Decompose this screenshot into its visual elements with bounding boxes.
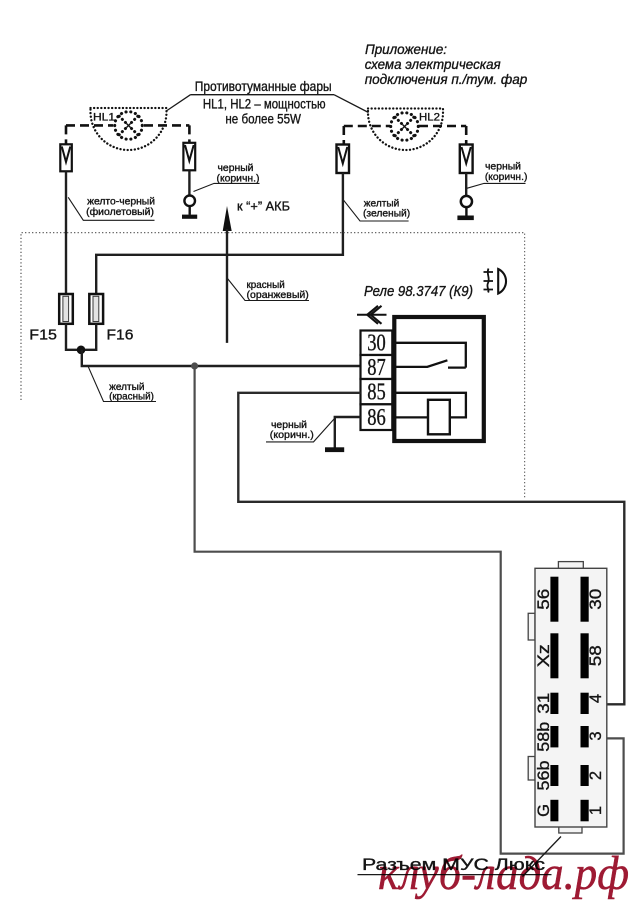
pin 58 (bar + label) xyxy=(581,633,605,678)
svg-text:(оранжевый): (оранжевый) xyxy=(247,290,309,301)
svg-text:87: 87 xyxy=(367,355,386,381)
pin Xz (bar + label) xyxy=(535,633,559,678)
wire: X4 to ground ring xyxy=(465,173,467,196)
connector MUS Lux: top tab xyxy=(558,562,583,569)
connector X4 (to HL2, right / ground side) xyxy=(460,145,473,174)
svg-text:к “+” АКБ: к “+” АКБ xyxy=(237,200,290,214)
svg-text:G: G xyxy=(535,804,553,817)
fog lamp HL2 (dotted dome + bulb) xyxy=(368,109,443,151)
label: Противотуманные фары (with underline and leaders to HL1, HL2) xyxy=(167,78,369,127)
svg-text:желто-черный: желто-черный xyxy=(87,197,155,208)
label: черный (коричн.) at X2 xyxy=(194,163,260,192)
pin 58b (bar + label) xyxy=(535,722,559,752)
note: Приложение header text xyxy=(365,41,528,87)
connector X3 (to HL2, left) xyxy=(337,145,350,174)
svg-text:2: 2 xyxy=(587,771,605,780)
pin 31 (bar + label) xyxy=(535,693,559,714)
ground terminal ring at X4 xyxy=(461,196,472,207)
svg-text:HL1, HL2 – мощностью: HL1, HL2 – мощностью xyxy=(203,96,326,112)
svg-text:схема электрическая: схема электрическая xyxy=(365,56,501,72)
svg-text:Xz: Xz xyxy=(535,644,553,667)
svg-text:4: 4 xyxy=(587,694,605,703)
wire: relay pin 86 to chassis ground xyxy=(335,417,361,448)
pin 2 (bar + label) xyxy=(581,765,605,786)
wire: X1 down to fuse F15 xyxy=(65,171,67,294)
svg-text:Реле 98.3747 (К9): Реле 98.3747 (К9) xyxy=(364,284,473,300)
svg-text:клуб-лада.рф: клуб-лада.рф xyxy=(378,847,629,900)
relay pin box 30 xyxy=(361,331,393,357)
pin 4 (bar + label) xyxy=(581,693,605,714)
ground terminal ring at X2 xyxy=(184,196,195,207)
wire: X2 to ground ring xyxy=(188,170,190,195)
svg-text:F16: F16 xyxy=(107,327,134,344)
arrow: line-continuation chevrons left of relay xyxy=(357,306,387,324)
svg-text:Приложение:: Приложение: xyxy=(365,41,447,57)
label: черный (коричн.) at relay ground xyxy=(266,419,335,442)
relay internal: pin87 movable contact arm xyxy=(392,360,447,367)
fog lamp HL1 (dotted dome + bulb) xyxy=(91,108,167,150)
svg-text:31: 31 xyxy=(535,693,553,714)
connector MUS Lux: body xyxy=(535,568,607,827)
relay internal: pin30 to fixed contact xyxy=(392,343,466,368)
svg-text:(зеленый): (зеленый) xyxy=(363,209,410,220)
svg-text:30: 30 xyxy=(587,589,605,610)
pin 56 (bar + label) xyxy=(535,577,559,622)
connector X2 (to HL1, right / ground side) xyxy=(183,143,195,171)
wire: dashed lamp wires HL1 xyxy=(66,125,189,144)
pin 3 (bar + label) xyxy=(581,726,605,747)
wire: junction down then right to relay pin 87 xyxy=(82,350,361,366)
junction node below fuses xyxy=(77,346,86,355)
svg-text:58b: 58b xyxy=(535,722,553,752)
wire: relay pin 85 to MUS connector pin 4 xyxy=(238,393,624,705)
wire: battery feed arrow up (к + АКБ) xyxy=(223,206,232,343)
svg-text:56b: 56b xyxy=(535,761,553,791)
relay internal: pin86 to coil left side xyxy=(392,416,428,418)
svg-text:3: 3 xyxy=(587,731,605,740)
label: черный (коричн.) at X4 xyxy=(467,161,528,188)
relay K9 body box xyxy=(394,317,484,441)
svg-text:черный: черный xyxy=(485,161,521,172)
svg-text:56: 56 xyxy=(535,589,553,610)
svg-text:F15: F15 xyxy=(29,327,57,344)
pin 56b (bar + label) xyxy=(535,761,559,791)
svg-text:(фиолетовый): (фиолетовый) xyxy=(86,206,154,218)
svg-text:черный: черный xyxy=(271,420,307,431)
label: желтый (красный) xyxy=(88,367,156,403)
fuse F16 xyxy=(89,294,103,324)
relay pin box 85 xyxy=(361,379,393,406)
pin 1 (bar + label) xyxy=(581,800,605,822)
svg-text:(коричн.): (коричн.) xyxy=(270,430,314,441)
svg-text:HL2: HL2 xyxy=(419,112,440,124)
wire: branch from 87-net to MUS connector pin 3 xyxy=(195,366,624,854)
svg-text:58: 58 xyxy=(587,645,605,666)
svg-text:(коричн.): (коричн.) xyxy=(217,173,260,184)
ground symbol at relay xyxy=(325,447,344,452)
fuse F15 xyxy=(59,294,73,324)
svg-text:86: 86 xyxy=(367,405,386,431)
junction node on 87 wire (branch to MUS connector) xyxy=(191,362,198,369)
svg-text:подключения п./тум. фар: подключения п./тум. фар xyxy=(365,71,528,87)
relay internal: pin85 to coil right side xyxy=(392,393,466,418)
relay coil xyxy=(428,400,450,435)
relay pin box 87 xyxy=(361,355,393,381)
relay pin box 86 xyxy=(361,404,393,431)
svg-text:HL1: HL1 xyxy=(93,112,115,124)
wire: F15/F16 bottoms join xyxy=(66,324,96,350)
svg-text:(коричн.): (коричн.) xyxy=(485,172,528,183)
label: желто-черный (фиолетовый) at X1 wire xyxy=(68,197,155,221)
wire: X3 down, left, to fuse F16 top xyxy=(96,173,343,294)
connector MUS Lux: bottom tab xyxy=(559,827,582,834)
ground symbol below X2 xyxy=(182,206,197,219)
dotted boundary box (mounting block) xyxy=(21,233,525,500)
svg-text:85: 85 xyxy=(367,380,386,406)
label: Разъем МУС Люкс (with underline and leader) xyxy=(358,837,562,877)
connector MUS Lux: left side bumps xyxy=(528,613,535,640)
svg-text:1: 1 xyxy=(587,806,605,815)
svg-text:не более 55W: не более 55W xyxy=(225,111,301,127)
pin G (bar + label) xyxy=(535,800,559,822)
pin 30 (bar + label) xyxy=(581,577,605,622)
wire: dashed lamp wires HL2 xyxy=(344,126,466,145)
label: желтый (зеленый) at X3 wire xyxy=(343,199,410,222)
label: красный (оранжевый) xyxy=(228,279,310,302)
ground symbol below X4 xyxy=(457,207,473,220)
icon: fog lamp symbol (beside relay label) xyxy=(484,269,507,294)
svg-text:30: 30 xyxy=(367,331,386,357)
svg-text:Противотуманные фары: Противотуманные фары xyxy=(195,78,332,94)
connector X1 (to HL1, left) xyxy=(60,144,72,171)
